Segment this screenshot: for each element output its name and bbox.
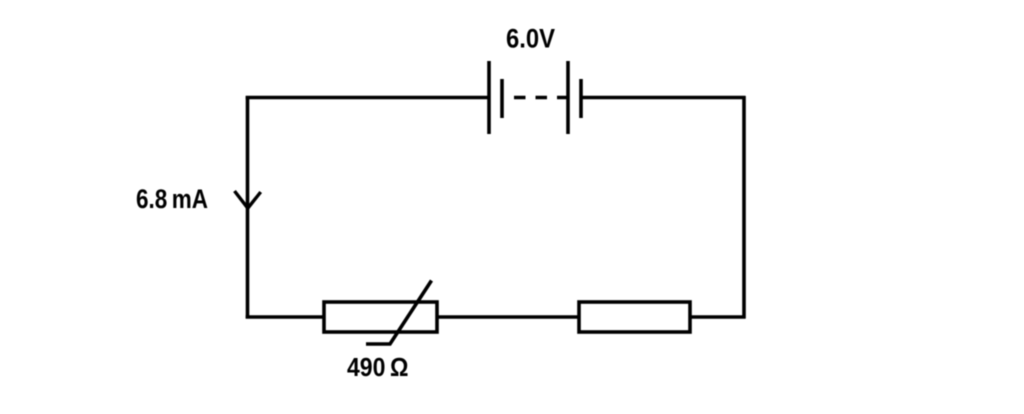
battery B1 short plate right: [579, 79, 583, 118]
wire top-right horizontal: [581, 96, 746, 100]
wire top-left horizontal: [246, 96, 489, 100]
battery B1 long plate right: [566, 61, 570, 134]
battery B1 long plate left: [487, 61, 491, 134]
wire right vertical: [742, 96, 746, 319]
wire bottom-left horizontal: [246, 315, 324, 319]
wire bottom-right horizontal: [690, 315, 746, 319]
thermistor RT1 body: [324, 302, 437, 332]
battery B1 short plate left: [500, 79, 504, 118]
svg-text:6.8 mA: 6.8 mA: [136, 184, 208, 214]
svg-text:490 Ω: 490 Ω: [347, 352, 409, 382]
resistor R1: [579, 302, 690, 332]
svg-text:6.0V: 6.0V: [506, 23, 555, 53]
current arrow head: [235, 191, 261, 208]
wire bottom-middle horizontal: [437, 315, 579, 319]
thermistor RT1 diagonal stroke: [366, 281, 432, 345]
wire left vertical: [246, 96, 250, 319]
wire dashed battery link: [514, 96, 568, 100]
